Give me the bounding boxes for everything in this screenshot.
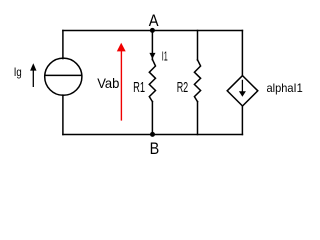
wire R1 branch lower: [151, 102, 153, 135]
voltage arrow Vab (red, up): [117, 43, 126, 121]
dependent current source alphaI1 (diamond): [227, 76, 258, 106]
svg-text:I1: I1: [162, 50, 168, 64]
svg-text:Vab: Vab: [97, 76, 120, 91]
wire R1 branch upper: [151, 31, 153, 60]
svg-text:R1: R1: [133, 79, 145, 96]
svg-text:A: A: [149, 11, 159, 30]
wire top (A to corners): [63, 30, 243, 32]
resistor R2: [194, 60, 200, 102]
resistor R1: [149, 59, 155, 101]
arrow Ig direction (up, left of source): [30, 63, 36, 87]
wire left branch upper: [62, 31, 64, 59]
wire R2 branch lower: [197, 102, 199, 135]
current arrow I1 (down, on R1 branch): [149, 53, 155, 59]
node A (junction dot): [150, 28, 155, 33]
wire R2 branch upper: [197, 31, 199, 61]
wire left branch lower: [62, 95, 64, 134]
current source Ig (circle with chord): [45, 58, 82, 95]
svg-text:B: B: [150, 139, 160, 158]
node B (junction dot): [150, 132, 155, 137]
svg-text:R2: R2: [177, 79, 189, 96]
wire bottom (B to corners): [63, 134, 243, 136]
svg-text:Ig: Ig: [14, 65, 22, 79]
wire right branch upper: [241, 31, 243, 76]
svg-text:alphaI1: alphaI1: [267, 81, 303, 95]
wire right branch lower: [241, 106, 243, 135]
arrow inside dependent source: [239, 80, 246, 97]
